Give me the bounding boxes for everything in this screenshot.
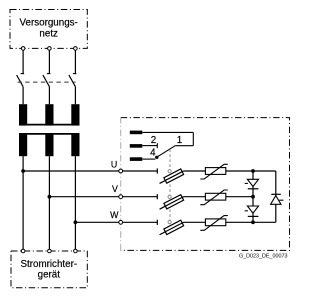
diode D2 cathode bar [248, 215, 259, 217]
varistor RV3 right wire [226, 221, 276, 223]
wire L1 to transformer [22, 87, 24, 105]
switch Q1 pole 3 blade [69, 75, 76, 87]
switch Q1 pole 2 fixed contact tick [47, 73, 51, 75]
transformer T1 primary winding phase 3 [71, 104, 79, 125]
aux switch S1 bracket wire [175, 145, 193, 147]
fuse F3 left wire [123, 221, 158, 223]
svg-text:U: U [111, 160, 117, 170]
switch Q1 pole 3 fixed contact tick [73, 73, 77, 75]
wire V horizontal [49, 196, 118, 198]
aux switch S1 right vertical wire [192, 132, 194, 145]
diode D1 side tick [245, 182, 248, 184]
wire phase3 down to converter [74, 156, 76, 249]
aux switch S1 terminal 2 wire [142, 145, 157, 147]
varistor RV3 body [205, 219, 225, 226]
terminal circle V on box edge [119, 195, 123, 199]
wire phase2 down to converter [48, 156, 50, 249]
box: protection unit left edge (gray dash-dot) [120, 118, 122, 251]
node W junction dot [74, 220, 78, 224]
diode D2 triangle [247, 206, 258, 213]
switch Q1 pole 2 blade [43, 75, 50, 87]
converter terminal circle 2 [48, 249, 52, 253]
wire W horizontal [75, 221, 118, 223]
fuse F2 right wire [184, 196, 206, 198]
varistor RV1 diagonal [200, 164, 228, 179]
transformer T1 primary bus line [19, 124, 80, 126]
node V junction dot [48, 195, 52, 199]
diode D1 triangle [247, 179, 258, 186]
fuse F1 left wire [123, 170, 158, 172]
svg-text:2: 2 [151, 135, 156, 146]
aux switch S1 blade [157, 146, 175, 158]
fuse F2 body (slanted) [158, 194, 185, 212]
svg-text:gerät: gerät [38, 270, 61, 281]
transformer T1 secondary bus line [19, 133, 80, 135]
svg-text:W: W [110, 210, 119, 220]
terminal circle U on box edge [119, 169, 123, 173]
fuse F2 fixed contact tick [156, 194, 158, 199]
aux switch S1 terminal 2 contact tick [156, 143, 158, 148]
svg-text:V: V [112, 184, 118, 194]
node U2 junction dot [251, 169, 255, 173]
wire U horizontal [23, 170, 119, 172]
box: protection unit top/right/bottom edges (dash-dot) [121, 118, 290, 251]
svg-text:Stromrichter-: Stromrichter- [20, 259, 77, 270]
aux switch S1 pivot dot [155, 156, 158, 159]
terminal circle W on box edge [119, 220, 123, 224]
wire phase1 down to converter [22, 156, 24, 249]
node U junction dot [21, 169, 25, 173]
svg-text:4: 4 [150, 148, 156, 159]
varistor RV1 right wire [226, 170, 276, 172]
svg-text:G_D023_DE_00073: G_D023_DE_00073 [239, 253, 288, 259]
svg-text:netz: netz [39, 28, 58, 39]
terminal circle L1 [21, 47, 25, 51]
fuse F2 linkage circle [168, 195, 171, 198]
wire L2 upper [48, 50, 50, 73]
diode D2 side tick [245, 210, 248, 212]
wire L2 to transformer [48, 87, 50, 105]
fuse F3 body (slanted) [158, 220, 185, 238]
diode D2 vertical wire [252, 197, 254, 223]
diode D3 vertical wire [275, 171, 277, 222]
svg-text:Versorgungs-: Versorgungs- [20, 17, 78, 28]
aux switch S1 top wire [142, 131, 193, 133]
transformer T1 secondary winding phase 1 [19, 133, 27, 156]
box: Versorgungsnetz (supply network) [10, 10, 87, 49]
diode D3 triangle [271, 196, 281, 205]
transformer T1 secondary winding phase 2 [45, 133, 53, 156]
terminal circle L2 [48, 47, 52, 51]
varistor RV2 diagonal [200, 190, 228, 205]
aux switch S1 terminal stub 1 [130, 131, 143, 135]
diode D1 cathode bar [248, 188, 259, 190]
fuse F3 linkage circle [168, 221, 171, 224]
varistor RV3 diagonal [200, 216, 228, 231]
varistor RV1 body [205, 168, 225, 175]
transformer T1 primary winding phase 2 [45, 104, 53, 125]
switch Q1 pole 1 fixed contact tick [21, 73, 25, 75]
switch Q1 pole 1 blade [17, 75, 24, 87]
wire L3 upper [74, 50, 76, 73]
converter terminal circle 1 [21, 249, 25, 253]
wire L3 to transformer [74, 87, 76, 105]
fuse F2 left wire [123, 196, 158, 198]
aux switch S1 terminal stub 4 [130, 157, 143, 161]
wire L1 upper [22, 50, 24, 73]
diode D3 side tick [279, 199, 283, 201]
varistor RV2 body [205, 193, 225, 200]
aux switch S1 terminal stub 2 [130, 144, 143, 148]
diode D1 vertical wire [252, 171, 254, 197]
fuse F3 fixed contact tick [156, 220, 158, 225]
diode D3 cathode bar [271, 193, 281, 195]
transformer T1 secondary winding phase 3 [71, 133, 79, 156]
box: Stromrichtergeraet (converter) [11, 251, 87, 288]
transformer T1 primary winding phase 1 [19, 104, 27, 125]
fuse F1 linkage circle [168, 170, 171, 173]
terminal circle L3 [74, 47, 78, 51]
fuse F1 fixed contact tick [156, 168, 158, 173]
fuse mechanical linkage (dashed vertical) [169, 149, 171, 221]
switch Q1 mechanical linkage (dashed) [18, 81, 76, 83]
aux switch S1 terminal 4 wire [142, 158, 155, 160]
node W2 junction dot [251, 220, 255, 224]
converter terminal circle 3 [74, 249, 78, 253]
node V2 junction dot [251, 195, 255, 199]
fuse F3 right wire [184, 221, 206, 223]
varistor RV2 right wire [226, 196, 253, 198]
fuse F1 body (slanted) [158, 168, 185, 186]
svg-text:1: 1 [177, 135, 182, 146]
fuse F1 right wire [184, 170, 206, 172]
